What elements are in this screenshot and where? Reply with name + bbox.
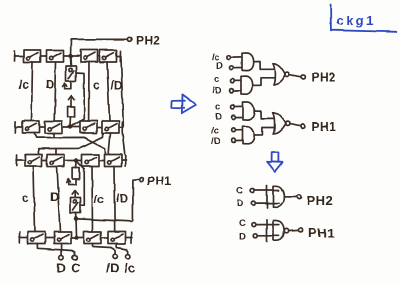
pass transistor M23 (80, 121, 97, 133)
wire input /c path (117, 244, 129, 255)
pass transistor M32 (47, 155, 64, 167)
pass transistor M13 (81, 50, 98, 62)
node N5 junction (74, 235, 78, 239)
pass transistor M34 (105, 155, 122, 167)
wire column D (54, 62, 55, 121)
pass transistor M14 (100, 50, 117, 62)
NOR gate G6 (273, 113, 286, 134)
svg-text:/D: /D (116, 192, 128, 206)
svg-text:PH1: PH1 (147, 174, 172, 188)
wire column /D2 (113, 167, 116, 232)
wire G1 to NOR1 (254, 62, 274, 70)
load R1 (68, 107, 75, 118)
pass transistor M24 (102, 121, 119, 133)
wire column D2 (57, 167, 61, 232)
AND gate G2 (241, 77, 253, 95)
terminal /D (113, 254, 117, 258)
wire column /c2 (91, 167, 94, 232)
svg-text:/c: /c (211, 126, 219, 137)
AND gate G4 (243, 126, 255, 144)
wire column c (88, 62, 90, 121)
wire N3 to R2 (75, 163, 78, 169)
svg-text:/D: /D (212, 86, 222, 97)
input pin C x2 (252, 223, 279, 227)
svg-text:c: c (22, 191, 29, 205)
arrow A4 up (72, 191, 78, 199)
svg-text:/c: /c (94, 192, 104, 206)
terminal /c (126, 254, 130, 258)
rail row1 (14, 51, 121, 62)
node N2 junction (68, 125, 72, 129)
svg-text:D: D (216, 61, 223, 72)
input pin D g3 (232, 115, 243, 119)
svg-text:C: C (71, 261, 81, 276)
wire column /D (107, 62, 110, 121)
svg-text:D: D (50, 190, 59, 204)
pass transistor M31 (25, 155, 42, 167)
wire G6 out (290, 124, 301, 126)
pass transistor M12 (47, 50, 64, 62)
svg-text:ckg1: ckg1 (336, 13, 376, 28)
wire R2 source (75, 179, 77, 185)
svg-text:PH1: PH1 (308, 226, 335, 241)
bubble G5 (285, 72, 289, 76)
wire feedback F1 (73, 73, 85, 126)
wire PH2 net (71, 39, 127, 56)
blue arrow right (171, 94, 196, 113)
wire input C path (38, 244, 75, 256)
bubble G6 (285, 122, 289, 126)
wire crossover X2 (38, 133, 103, 155)
bent arrow A1 (63, 83, 71, 89)
NOR gate G5 (273, 63, 285, 84)
wire G4 to NOR2 (254, 128, 273, 136)
pass transistor M11 (24, 50, 41, 62)
svg-text:c: c (214, 74, 219, 85)
pass transistor M33 (82, 155, 99, 167)
terminal PH2 (127, 37, 131, 41)
pass transistor M44 (108, 232, 125, 244)
load R2 (73, 168, 80, 179)
input pin /D g4 (232, 139, 243, 143)
wire column c (34, 167, 36, 232)
svg-text:/D: /D (107, 261, 120, 276)
wire column link right 2 (109, 133, 111, 155)
svg-text:D: D (215, 112, 222, 123)
wire stub B22 (53, 133, 55, 138)
AND gate G3 (243, 102, 255, 120)
XOR gate X2 body (274, 220, 285, 240)
node N4 junction (74, 217, 78, 221)
wire X1 out (284, 196, 296, 198)
load U2 vertical switch (71, 198, 81, 213)
AND gate G1 (242, 53, 254, 71)
pass transistor M42 (54, 232, 71, 244)
svg-text:C: C (239, 218, 246, 229)
svg-text:c: c (93, 78, 100, 92)
bent arrow A3 (66, 179, 76, 185)
wire U1 drain (70, 58, 73, 66)
load U1 vertical switch (66, 66, 76, 81)
wire G2 to NOR1 (253, 78, 274, 86)
node N1 junction (68, 54, 72, 58)
blue ckg1 box (331, 5, 397, 32)
XOR gate X1 extra bar (266, 185, 268, 207)
wire column /c (32, 62, 33, 121)
svg-text:PH2: PH2 (307, 193, 334, 208)
input pin /c g1 (227, 56, 242, 60)
pass transistor M41 (28, 232, 45, 244)
wire crossover X1 (34, 133, 106, 155)
svg-text:PH2: PH2 (312, 71, 337, 85)
input pin D g1 (230, 66, 243, 70)
input pin c g3 (231, 105, 244, 109)
terminal PH1 (139, 178, 143, 182)
wire X2 out (289, 229, 298, 232)
svg-text:/c: /c (19, 78, 29, 92)
pass transistor M22 (45, 121, 62, 133)
wire N4 down (75, 219, 78, 236)
svg-text:/D: /D (111, 79, 123, 93)
blue arrow down (267, 152, 283, 172)
wire PH1 net (78, 180, 139, 222)
pass transistor M43 (84, 232, 101, 244)
svg-text:D: D (57, 261, 66, 276)
input pin C x1 (251, 189, 279, 193)
svg-text:D: D (239, 232, 246, 243)
rail row4 (19, 232, 132, 243)
terminal PH2 xor (297, 195, 301, 199)
bubble X2 (284, 228, 288, 232)
rail row3 (16, 155, 126, 166)
svg-text:PH2: PH2 (136, 34, 161, 48)
wire feedback F2 (78, 163, 84, 206)
wire G3 to NOR2 (255, 111, 274, 119)
XOR gate X1 body (274, 186, 285, 207)
svg-text:/D: /D (211, 136, 221, 147)
terminal PH1 xor (298, 228, 302, 232)
svg-text:C: C (237, 186, 244, 197)
svg-text:/c: /c (124, 261, 135, 276)
rail row2 (15, 122, 123, 133)
wire rail link right 3 (122, 133, 125, 156)
input pin c g2 (231, 79, 242, 83)
input pin /D g2 (230, 89, 242, 93)
wire rail link right 1 (121, 58, 123, 126)
wire U1 source (70, 81, 72, 89)
terminal PH2 cluster (301, 75, 305, 79)
input pin /c g4 (232, 128, 243, 132)
svg-text:D: D (46, 77, 55, 91)
wire input /D path (93, 244, 116, 255)
XOR gate X2 extra bar (266, 220, 268, 242)
terminal PH1 cluster (301, 124, 305, 128)
terminal C (72, 255, 76, 259)
wire R1 to N2 (70, 117, 73, 126)
terminal D (59, 255, 63, 259)
svg-text:D: D (237, 199, 244, 210)
svg-text:PH1: PH1 (312, 120, 337, 134)
wire stub B32 (55, 149, 57, 155)
wire U2 to N4 (75, 213, 78, 219)
input pin D x1 (251, 201, 279, 205)
input pin D x2 (253, 234, 279, 238)
wire input D path (61, 244, 63, 256)
node N3 junction (74, 158, 78, 162)
pass transistor M21 (23, 121, 40, 133)
wire G5 out (289, 75, 301, 77)
arrow A2 up (68, 96, 74, 106)
